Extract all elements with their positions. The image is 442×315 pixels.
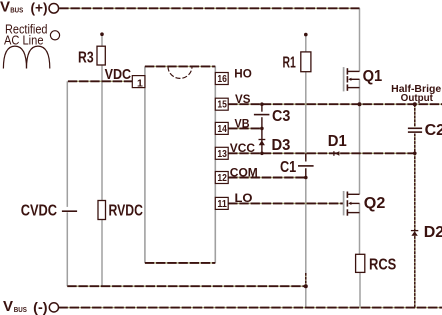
svg-text:11: 11 [217,199,227,210]
svg-text:Q1: Q1 [363,68,383,85]
svg-text:16: 16 [217,74,227,85]
svg-text:C2: C2 [425,122,442,139]
svg-text:HO: HO [234,66,252,80]
svg-text:LO: LO [235,191,253,205]
svg-text:Q2: Q2 [364,195,386,212]
svg-text:R1: R1 [283,55,296,72]
svg-text:COM: COM [230,165,258,179]
svg-text:R3: R3 [78,50,94,67]
svg-text:D2: D2 [424,224,442,241]
svg-text:AC Line: AC Line [4,34,44,48]
svg-text:VB: VB [235,116,250,130]
svg-text:Output: Output [401,93,434,104]
svg-text:1: 1 [137,78,143,90]
svg-text:D3: D3 [272,137,291,154]
svg-text:13: 13 [217,149,227,160]
svg-text:BUS: BUS [14,307,27,314]
svg-text:V: V [0,0,10,16]
svg-text:C1: C1 [280,159,296,176]
svg-text:(+): (+) [31,1,48,16]
svg-text:VS: VS [235,92,250,106]
svg-text:RVDC: RVDC [109,203,143,220]
svg-text:12: 12 [217,173,227,184]
svg-text:VDC: VDC [105,66,132,83]
svg-text:D1: D1 [328,133,347,150]
svg-text:14: 14 [217,124,227,135]
svg-text:CVDC: CVDC [21,203,57,220]
svg-text:VCC: VCC [230,141,256,155]
svg-text:V: V [3,298,13,315]
svg-text:RCS: RCS [369,257,397,274]
svg-text:C3: C3 [272,108,290,125]
svg-text:(-): (-) [33,300,47,315]
svg-text:BUS: BUS [10,8,23,15]
svg-text:15: 15 [217,100,227,111]
